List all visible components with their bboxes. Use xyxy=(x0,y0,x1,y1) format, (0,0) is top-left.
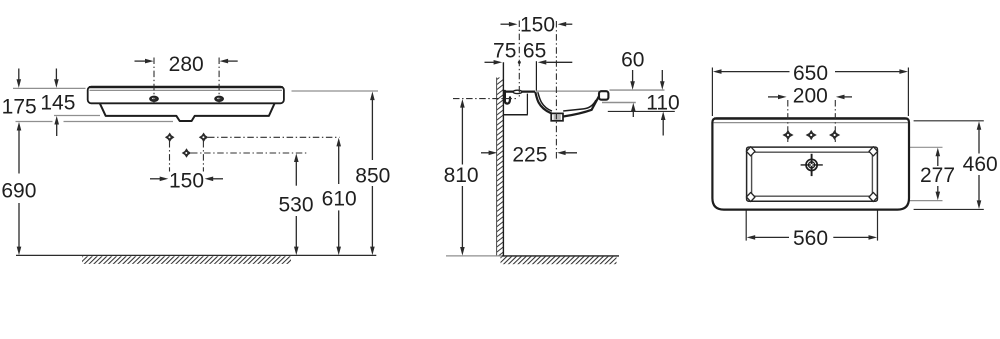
svg-text:650: 650 xyxy=(793,62,828,85)
svg-text:110: 110 xyxy=(646,92,679,115)
svg-text:150: 150 xyxy=(169,169,204,192)
svg-text:530: 530 xyxy=(278,194,313,217)
svg-text:75: 75 xyxy=(493,40,516,63)
svg-text:175: 175 xyxy=(2,95,37,118)
svg-text:610: 610 xyxy=(322,188,357,211)
svg-text:200: 200 xyxy=(793,85,828,108)
svg-text:150: 150 xyxy=(520,14,555,37)
svg-text:850: 850 xyxy=(355,164,390,187)
svg-text:280: 280 xyxy=(169,53,204,76)
svg-text:560: 560 xyxy=(793,227,828,250)
svg-text:690: 690 xyxy=(1,180,36,203)
svg-text:810: 810 xyxy=(444,164,479,187)
svg-text:60: 60 xyxy=(621,49,644,72)
svg-text:145: 145 xyxy=(40,91,75,114)
svg-text:277: 277 xyxy=(920,164,955,187)
svg-text:460: 460 xyxy=(963,153,998,176)
svg-text:225: 225 xyxy=(512,144,547,167)
svg-text:65: 65 xyxy=(523,40,546,63)
